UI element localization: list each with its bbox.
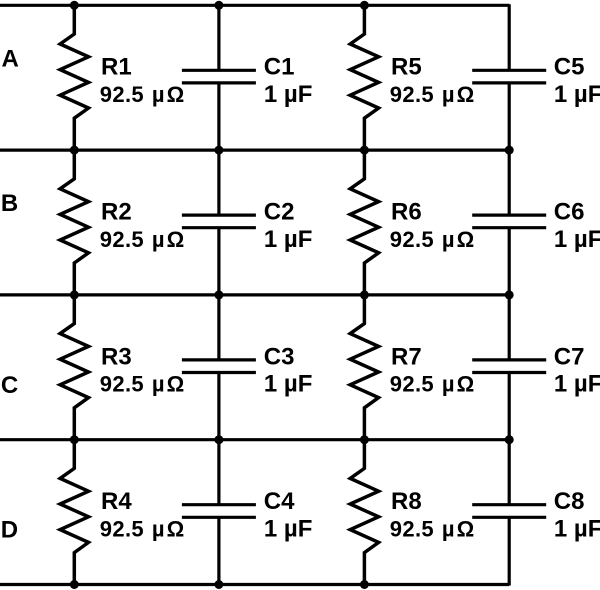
svg-text:92.5: 92.5 [100,372,144,397]
wire: horizontal rail 2 (node B) [0,149,509,152]
capacitor C5 [472,4,546,151]
junction at x=74 y=5 [70,1,79,10]
junction at x=364 y=440 [360,435,369,444]
svg-text:R2: R2 [101,199,132,226]
svg-text:A: A [2,45,19,72]
junction at x=219 y=584 [214,580,223,589]
junction at x=364 y=150 [360,146,369,155]
svg-text:R6: R6 [391,199,422,226]
svg-text:C6: C6 [554,199,585,226]
resistor R7 [350,294,378,441]
svg-text:B: B [1,190,18,217]
resistor R3 [60,294,88,441]
svg-text:µΩ: µΩ [442,516,476,541]
svg-text:R4: R4 [101,488,132,515]
svg-text:µΩ: µΩ [152,372,186,397]
svg-text:C7: C7 [554,343,585,370]
svg-text:1 µF: 1 µF [554,515,600,542]
wire: horizontal bottom rail [0,583,509,586]
junction at x=74 y=295 [70,290,79,299]
svg-text:µΩ: µΩ [442,372,476,397]
svg-text:C: C [1,372,18,399]
junction at x=364 y=584 [360,580,369,589]
svg-text:1 µF: 1 µF [264,81,313,108]
junction at x=219 y=295 [214,290,223,299]
junction at x=219 y=5 [214,1,223,10]
wire: horizontal rail 3 (node C) [0,293,509,296]
resistor R6 [350,149,378,296]
capacitor C3 [182,294,256,441]
capacitor C7 [472,294,546,441]
svg-text:D: D [1,517,18,544]
wire: horizontal top rail [0,4,509,7]
wire: horizontal rail 4 (node D) [0,438,509,441]
svg-text:92.5: 92.5 [390,516,434,541]
junction at x=364 y=295 [360,290,369,299]
svg-text:R1: R1 [101,54,132,81]
svg-text:92.5: 92.5 [100,82,144,107]
svg-text:C8: C8 [554,488,585,515]
svg-text:92.5: 92.5 [390,82,434,107]
svg-text:R5: R5 [391,54,422,81]
svg-text:92.5: 92.5 [390,227,434,252]
svg-text:R8: R8 [391,488,422,515]
svg-text:1 µF: 1 µF [554,226,600,253]
capacitor C8 [472,439,546,586]
svg-text:1 µF: 1 µF [264,226,313,253]
svg-text:1 µF: 1 µF [264,371,313,398]
svg-text:R7: R7 [391,343,422,370]
resistor R2 [60,149,88,296]
junction at x=74 y=440 [70,435,79,444]
svg-text:C1: C1 [264,54,295,81]
svg-text:µΩ: µΩ [442,227,476,252]
svg-text:µΩ: µΩ [152,516,186,541]
resistor R4 [60,439,88,586]
svg-text:C5: C5 [554,54,585,81]
svg-text:1 µF: 1 µF [264,515,313,542]
resistor R1 [60,4,88,151]
svg-text:µΩ: µΩ [442,82,476,107]
resistor R8 [350,439,378,586]
svg-text:92.5: 92.5 [390,372,434,397]
svg-text:1 µF: 1 µF [554,371,600,398]
svg-text:C3: C3 [264,343,295,370]
junction at x=219 y=150 [214,146,223,155]
junction at x=509 y=440 [505,435,514,444]
junction at x=509 y=295 [505,290,514,299]
svg-text:µΩ: µΩ [152,227,186,252]
svg-text:µΩ: µΩ [152,82,186,107]
svg-text:C4: C4 [264,488,295,515]
capacitor C1 [182,4,256,151]
junction at x=74 y=150 [70,146,79,155]
svg-text:92.5: 92.5 [100,516,144,541]
capacitor C4 [182,439,256,586]
junction at x=219 y=440 [214,435,223,444]
junction at x=509 y=150 [505,146,514,155]
resistor R5 [350,4,378,151]
junction at x=74 y=584 [70,580,79,589]
svg-text:92.5: 92.5 [100,227,144,252]
capacitor C6 [472,149,546,296]
svg-text:C2: C2 [264,199,295,226]
svg-text:1 µF: 1 µF [554,81,600,108]
svg-text:R3: R3 [101,343,132,370]
capacitor C2 [182,149,256,296]
junction at x=364 y=5 [360,1,369,10]
